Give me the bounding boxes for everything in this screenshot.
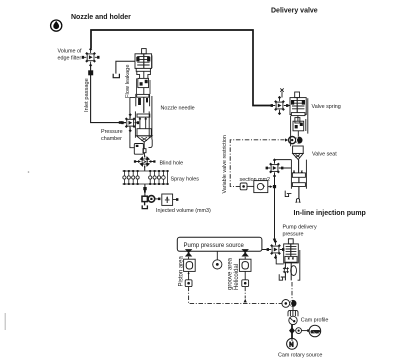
top port [142,49,147,54]
stem [297,131,299,137]
scan artifact line [4,313,6,330]
cam shaft link [289,324,295,339]
top port [288,239,293,244]
section mm2 valve [266,158,284,177]
svg-text:Variable valve restriction: Variable valve restriction [222,135,228,193]
edge filter valve [82,48,100,67]
junction dot [273,185,276,188]
svg-text:Nozzle and holder: Nozzle and holder [71,14,131,21]
spring housing [290,98,306,115]
svg-text:groove area: groove area [228,257,234,290]
nozzle needle assembly [130,49,152,157]
spring seat bar [136,68,150,71]
needle seat funnel [136,136,152,142]
svg-text:Valve seat: Valve seat [312,152,337,158]
dash-dot control line: variable valve restriction [230,140,284,187]
svg-text:pressure: pressure [283,232,304,238]
speck artifact [28,171,30,173]
wires from section valve to seat [275,160,292,240]
spray holes manifold [123,170,169,190]
delivery valve assembly [285,92,308,202]
groove area branch [239,250,251,280]
arrowhead up to groove [244,299,247,303]
svg-text:Cam profile: Cam profile [301,317,329,323]
pump inlet valve [267,240,285,259]
mass block [293,121,304,131]
svg-text:Pump pressure source: Pump pressure source [184,243,245,249]
rotary source [287,338,298,349]
pump pressure source box [177,237,267,251]
blind hole orifice [134,155,156,171]
lower cylinder [135,111,149,137]
svg-text:Nozzle needle: Nozzle needle [161,106,195,112]
junction tick [119,121,122,124]
right retainer [307,98,309,133]
mass block [138,78,149,87]
delivery inlet valve [271,96,289,115]
lower walls [285,262,291,280]
shaft speed gauge [296,328,310,334]
svg-text:Helicoidal: Helicoidal [234,264,240,290]
lower cylinder [291,160,306,189]
wire: flow leakage [116,61,135,73]
node on inlet passage [88,70,93,75]
cam profile wheel [289,316,297,324]
cam follower [288,307,298,316]
plug mark above delivery valve [280,88,283,97]
pressure chamber box [137,129,151,136]
speed value circle [309,325,321,337]
plunger [285,256,297,262]
svg-text:N: N [289,343,293,349]
svg-text:675P: 675P [311,329,321,334]
pressure chamber valve [121,113,139,132]
right retainer [298,250,300,280]
pump assembly [276,239,300,281]
arrowhead into ball [285,138,288,141]
wire [247,185,254,187]
neck [297,116,299,122]
svg-text:Volume of: Volume of [58,49,82,55]
tank plug [142,202,147,209]
dash-dot cam command lines [189,287,282,304]
right retainer [151,55,153,139]
tank plug [113,74,119,78]
svg-text:Spray holes: Spray holes [171,177,200,183]
stem [143,88,145,95]
signal: area function box [254,181,273,193]
svg-text:Inlet passage: Inlet passage [84,78,90,112]
seat chamber [293,146,304,153]
svg-text:Flow leakage: Flow leakage [125,64,131,98]
top port [295,92,300,98]
bottom left plug port [279,274,285,280]
pi port [295,199,300,203]
svg-text:section mm2: section mm2 [240,177,271,183]
svg-text:Cam rotary source: Cam rotary source [278,352,322,358]
sac volume box [134,144,143,155]
svg-text:Pressure: Pressure [101,129,123,135]
arrow into pump valve [273,239,276,243]
barrel [284,244,299,263]
spring seat bar [291,113,305,116]
signal: section area input square [240,183,247,190]
svg-text:Delivery valve: Delivery valve [271,8,318,15]
wire: main delivery pipe [91,30,272,106]
bottom left plug port [285,191,291,197]
svg-text:Pump delivery: Pump delivery [283,225,317,231]
piston area branch [184,250,196,280]
ball valve pair [289,137,296,144]
source gauge [216,251,218,259]
svg-text:In-line injection pump: In-line injection pump [294,210,366,217]
svg-text:edge filter: edge filter [58,56,82,62]
seat funnel [293,153,304,159]
svg-text:Valve spring: Valve spring [312,104,341,110]
svg-text:Piston area: Piston area [179,255,185,286]
svg-text:chamber: chamber [101,136,122,142]
fluid properties icon [51,20,62,31]
cam contact sensors [282,300,290,308]
left leak channel [130,97,135,147]
spring housing [135,54,152,69]
upper piston [136,94,150,106]
neck [143,71,145,78]
injected volume sensor [142,190,160,209]
right hook [149,140,153,148]
integrator box [162,194,179,205]
svg-text:Injected volume (mm3): Injected volume (mm3) [156,208,211,214]
wire: inlet passage [91,66,126,123]
svg-text:Blind hole: Blind hole [160,161,184,167]
bottom port [143,142,145,149]
